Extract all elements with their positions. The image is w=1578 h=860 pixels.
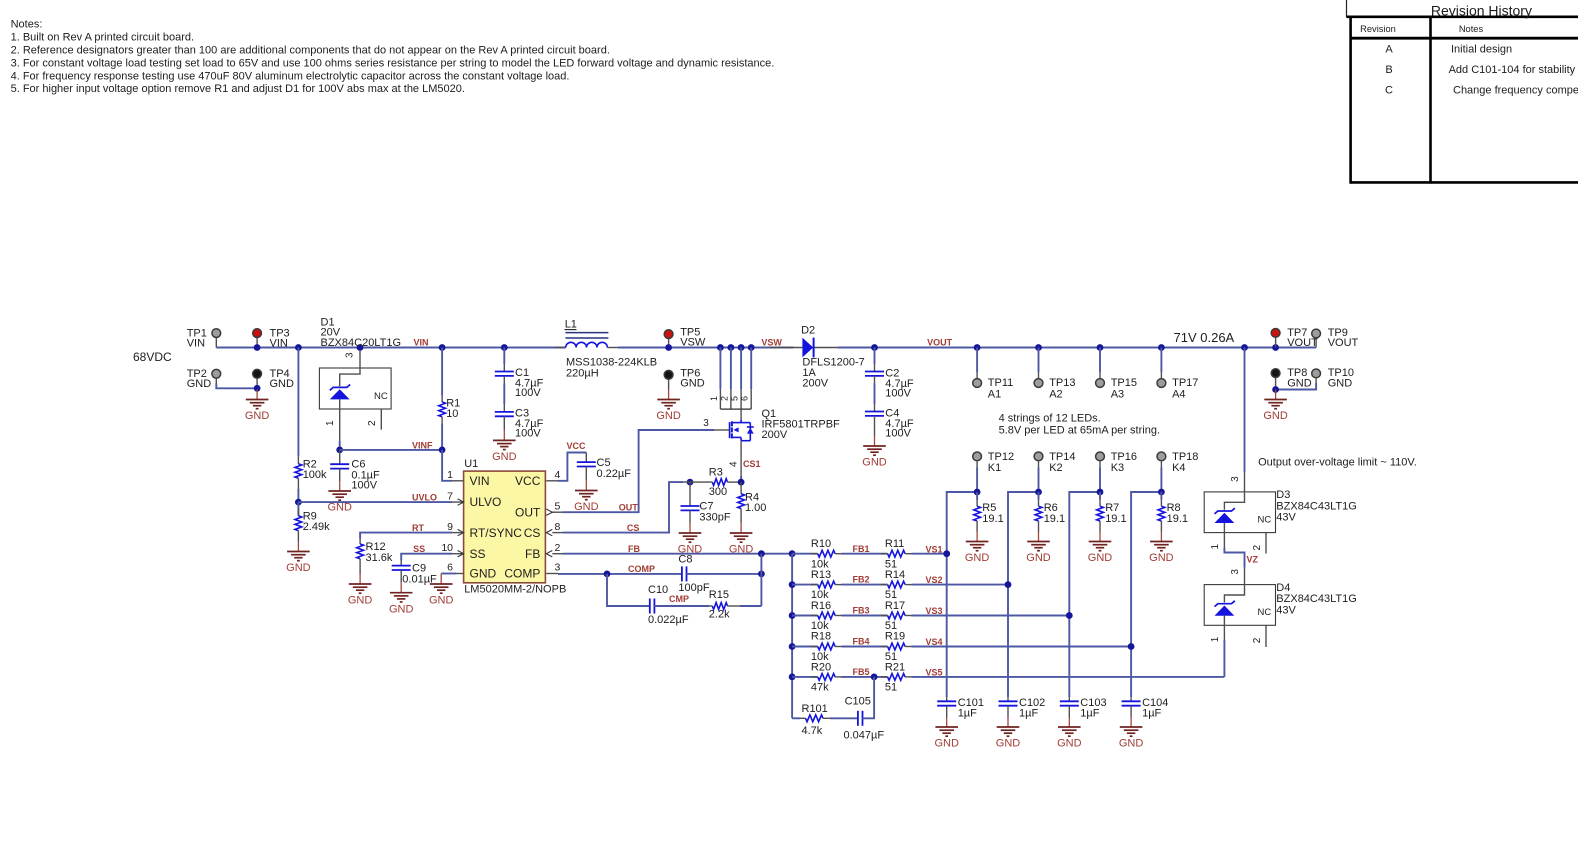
svg-text:10: 10 — [441, 542, 453, 554]
wire D1 pin 1 to VINF node — [339, 441, 341, 450]
wire FB2 segment — [842, 584, 888, 586]
wire R1 branch upper — [441, 348, 443, 396]
wire R2 to UVLO node — [297, 489, 299, 502]
svg-text:2.49k: 2.49k — [303, 521, 330, 533]
ground symbol below R8 — [1160, 532, 1162, 542]
svg-text:RT: RT — [412, 523, 424, 533]
svg-text:100V: 100V — [351, 480, 377, 492]
svg-text:GND: GND — [1057, 738, 1082, 750]
svg-text:2: 2 — [367, 420, 378, 426]
svg-text:4. For frequency response test: 4. For frequency response testing use 47… — [11, 70, 570, 82]
wire R101 to C105 — [830, 717, 858, 719]
svg-text:1: 1 — [325, 420, 336, 426]
test point TP18 K4 — [1157, 451, 1198, 492]
wire FB1 segment — [842, 553, 888, 555]
svg-text:43V: 43V — [1276, 604, 1296, 616]
wire R101/C105 branch — [792, 717, 800, 719]
wire C2 branch upper — [874, 348, 876, 365]
svg-text:BZX84C43LT1G: BZX84C43LT1G — [1276, 593, 1357, 605]
svg-text:A2: A2 — [1049, 389, 1062, 401]
svg-text:51: 51 — [885, 682, 897, 694]
wire between C2 and C4 — [874, 384, 876, 405]
svg-text:VIN: VIN — [270, 337, 288, 349]
svg-text:VOUT: VOUT — [927, 338, 953, 348]
capacitor C4 4.7uF 100V — [865, 404, 914, 439]
ground symbol below C3 — [503, 430, 505, 440]
zener diode D1 BZX84C20LT1G — [319, 317, 401, 441]
svg-text:Add C101-104 for stability: Add C101-104 for stability — [1449, 64, 1576, 76]
wire COMP branch down to C10 — [607, 574, 650, 606]
resistor R18 10k — [792, 631, 841, 663]
test point TP15 A3 — [1096, 348, 1137, 401]
svg-text:100V: 100V — [885, 387, 911, 399]
capacitor C103 1uF — [1060, 697, 1107, 720]
svg-text:TP11: TP11 — [988, 377, 1013, 389]
junction VS3 column to ladder row — [1066, 612, 1073, 619]
ground symbol below R6 — [1038, 532, 1040, 542]
svg-text:68VDC: 68VDC — [133, 350, 172, 364]
capacitor C105 0.047uF — [844, 696, 885, 742]
svg-text:4 strings of 12 LEDs.: 4 strings of 12 LEDs. — [999, 412, 1101, 424]
junction K3 node — [1097, 489, 1104, 496]
resistor R15 2.2k — [709, 589, 740, 620]
svg-text:2: 2 — [1252, 637, 1263, 643]
wire VOUT rail from D2 to TP9 corner — [838, 347, 1316, 349]
svg-text:R19: R19 — [885, 631, 905, 643]
svg-text:0.047µF: 0.047µF — [844, 730, 885, 742]
wire VSW rail from L1 to D2 — [618, 347, 794, 349]
svg-text:71V 0.26A: 71V 0.26A — [1174, 330, 1235, 345]
wire Q1 drain pin 6 — [750, 348, 752, 390]
junction K4 node — [1158, 489, 1165, 496]
test point TP6 GND — [664, 367, 705, 389]
test point TP8 GND — [1271, 367, 1312, 389]
svg-text:GND: GND — [348, 595, 373, 607]
svg-text:4.7k: 4.7k — [802, 725, 823, 737]
junction VIN rail to R1 branch — [439, 344, 446, 351]
wire VS4 segment — [912, 646, 1132, 648]
resistor R2 100k — [295, 456, 327, 489]
svg-text:CS: CS — [627, 523, 640, 533]
svg-text:CMP: CMP — [669, 594, 689, 604]
svg-text:3: 3 — [1230, 569, 1241, 575]
ground symbol below C4 — [874, 436, 876, 446]
svg-text:ULVO: ULVO — [470, 495, 502, 509]
svg-text:Output over-voltage limit ~ 11: Output over-voltage limit ~ 110V. — [1258, 457, 1417, 469]
junction TP3 on VIN rail — [254, 344, 261, 351]
junction FB5 node at C105 branch — [871, 674, 878, 681]
pin 2 stub of D4 (NC) — [1265, 625, 1267, 647]
junction FB node at ladder bus — [789, 550, 796, 557]
capacitor C8 100pF — [678, 553, 761, 593]
junction ladder bus row 3 — [789, 612, 796, 619]
svg-text:R101: R101 — [802, 703, 828, 715]
svg-text:3. For constant voltage load t: 3. For constant voltage load testing set… — [11, 57, 775, 69]
svg-text:R13: R13 — [811, 569, 831, 581]
ground symbol below R5 — [976, 532, 978, 542]
junction TP5 on VSW rail — [665, 344, 672, 351]
wire between C1 and C3 — [503, 384, 505, 405]
svg-text:0.022µF: 0.022µF — [648, 614, 689, 626]
test point TP13 A2 — [1034, 348, 1075, 401]
svg-text:D4: D4 — [1276, 582, 1290, 594]
wire FB4 segment — [842, 646, 888, 648]
svg-text:5.8V per LED at 65mA per strin: 5.8V per LED at 65mA per string. — [999, 425, 1160, 437]
svg-text:FB5: FB5 — [853, 667, 870, 677]
svg-text:Revision: Revision — [1360, 24, 1396, 34]
svg-text:1µF: 1µF — [1019, 708, 1038, 720]
svg-text:CS: CS — [524, 526, 541, 540]
wire Q1 drain bracket — [720, 408, 751, 410]
svg-text:6: 6 — [447, 562, 453, 574]
svg-text:VSW: VSW — [761, 338, 782, 348]
junction TP4 ground node — [254, 385, 261, 392]
svg-text:3: 3 — [1230, 476, 1241, 482]
capacitor C101 1uF — [937, 697, 984, 720]
svg-text:TP16: TP16 — [1111, 451, 1137, 463]
junction TP8 ground node — [1272, 386, 1279, 393]
resistor R19 51 — [881, 631, 912, 663]
wire ladder left bus — [791, 554, 793, 719]
svg-text:GND: GND — [492, 451, 517, 463]
svg-text:R3: R3 — [709, 467, 723, 479]
svg-text:VZ: VZ — [1247, 555, 1259, 565]
svg-text:100V: 100V — [515, 387, 541, 399]
svg-text:5: 5 — [730, 396, 740, 401]
ground symbol below C101 — [946, 717, 948, 727]
pin 2 stub of D3 (NC) — [1265, 533, 1267, 554]
junction VSW rail to Q1 drain pin 5 — [738, 344, 745, 351]
svg-text:A1: A1 — [988, 389, 1001, 401]
inductor L1 MSS1038-224KLB 220uH — [555, 319, 657, 380]
wire Q1 source to CS1 node — [740, 441, 742, 476]
resistor R11 51 — [881, 538, 912, 570]
svg-text:VIN: VIN — [470, 474, 490, 488]
resistor R20 47k — [792, 661, 841, 693]
capacitor C102 1uF — [999, 697, 1046, 720]
pin 4 VCC of U1 — [546, 480, 558, 482]
svg-text:R11: R11 — [885, 538, 904, 550]
wire Q1 drain pin 5 — [740, 348, 742, 390]
svg-text:1µF: 1µF — [1142, 708, 1161, 720]
svg-text:R16: R16 — [811, 600, 831, 612]
svg-text:220µH: 220µH — [566, 368, 599, 380]
pin 1 VIN of U1 — [452, 480, 464, 482]
svg-text:C105: C105 — [845, 696, 871, 708]
svg-text:1: 1 — [447, 469, 453, 481]
resistor R8 19.1 — [1158, 492, 1188, 532]
svg-text:A4: A4 — [1172, 389, 1185, 401]
wire Q1 gate lead — [714, 429, 730, 431]
svg-text:Change frequency compensation: Change frequency compensation — [1453, 85, 1578, 97]
svg-text:TP18: TP18 — [1172, 451, 1198, 463]
wire VS1 column — [947, 492, 977, 697]
svg-text:NC: NC — [1258, 514, 1272, 525]
svg-text:VOUT: VOUT — [1328, 337, 1359, 349]
svg-text:2: 2 — [719, 396, 729, 401]
svg-text:R20: R20 — [811, 661, 831, 673]
svg-text:100V: 100V — [515, 427, 541, 439]
test point TP2 GND — [187, 368, 221, 390]
svg-text:SS: SS — [470, 547, 486, 561]
svg-text:5. For higher input voltage op: 5. For higher input voltage option remov… — [11, 83, 465, 95]
capacitor C104 1uF — [1122, 697, 1169, 720]
junction VOUT rail to TP13 — [1035, 344, 1042, 351]
svg-text:L1: L1 — [565, 319, 577, 331]
svg-text:0.22µF: 0.22µF — [597, 468, 632, 480]
svg-text:B: B — [1385, 64, 1392, 76]
svg-text:100V: 100V — [885, 427, 911, 439]
test point TP3 VIN — [253, 327, 290, 349]
wire FB3 segment — [842, 615, 888, 617]
junction ladder bus row 2 — [789, 581, 796, 588]
svg-text:NC: NC — [1258, 607, 1272, 618]
junction VOUT rail to TP15 — [1097, 344, 1104, 351]
svg-text:2. Reference designators great: 2. Reference designators greater than 10… — [11, 44, 610, 56]
junction VS1 column to ladder row — [943, 550, 950, 557]
pin 2 stub of D1 (NC) — [380, 409, 382, 430]
wire R2 branch upper — [297, 348, 299, 457]
transistor Q1 IRF5801TRPBF 200V — [730, 408, 840, 441]
svg-text:C9: C9 — [412, 562, 426, 574]
svg-text:COMP: COMP — [628, 564, 655, 574]
junction VSW rail to Q1 drain pin 6 — [748, 344, 755, 351]
svg-text:9: 9 — [447, 521, 453, 533]
wire VINF to R1 bottom — [340, 449, 442, 451]
junction VOUT rail to D3 branch — [1241, 344, 1248, 351]
svg-text:VSW: VSW — [680, 337, 706, 349]
resistor R101 4.7k — [800, 703, 830, 737]
resistor R14 51 — [881, 569, 912, 601]
svg-text:VS2: VS2 — [926, 575, 943, 585]
revision history table — [1347, 0, 1578, 184]
wire TP2 to TP4 ground node — [216, 384, 257, 389]
junction VIN rail to C1 branch — [501, 344, 508, 351]
svg-text:47k: 47k — [811, 682, 829, 694]
svg-text:19.1: 19.1 — [982, 513, 1003, 525]
svg-text:C8: C8 — [678, 553, 692, 565]
junction UVLO node — [295, 499, 302, 506]
ground symbol below R12 — [359, 574, 361, 584]
wire U1 GND pin to ground — [441, 573, 456, 575]
svg-text:GND: GND — [1328, 377, 1353, 389]
svg-text:VCC: VCC — [567, 441, 587, 451]
svg-text:GND: GND — [934, 738, 959, 750]
op-amp U1 LM5020MM-2/NOPB controller — [464, 458, 567, 595]
svg-text:TP13: TP13 — [1049, 377, 1075, 389]
svg-text:4: 4 — [555, 469, 561, 481]
svg-text:VIN: VIN — [414, 338, 429, 348]
junction VS2 column to ladder row — [1005, 581, 1012, 588]
svg-text:OUT: OUT — [515, 505, 541, 519]
svg-text:FB2: FB2 — [853, 575, 870, 585]
junction VIN rail to D1 pin 3 — [357, 344, 364, 351]
svg-text:200V: 200V — [762, 429, 788, 441]
svg-text:SS: SS — [413, 544, 425, 554]
svg-text:R14: R14 — [885, 569, 905, 581]
svg-text:5: 5 — [555, 500, 561, 512]
svg-text:6: 6 — [740, 396, 750, 401]
svg-text:D3: D3 — [1276, 489, 1290, 501]
svg-text:200V: 200V — [802, 377, 828, 389]
wire VS3 segment — [912, 615, 1070, 617]
svg-text:VS4: VS4 — [926, 637, 943, 647]
wire VS4 column — [1131, 492, 1161, 697]
resistor R21 51 — [881, 661, 912, 693]
svg-text:K1: K1 — [988, 462, 1001, 474]
svg-text:GND: GND — [470, 567, 497, 581]
wire FB net from pin 2 to ladder bus — [563, 553, 792, 555]
ground symbol below U1 pin 6 — [440, 574, 442, 585]
svg-text:NC: NC — [374, 391, 388, 402]
svg-text:GND: GND — [680, 378, 705, 390]
wire TP10 to TP8 ground node — [1276, 383, 1317, 390]
svg-text:TP14: TP14 — [1049, 451, 1075, 463]
svg-text:GND: GND — [1149, 552, 1174, 564]
wire D3 branch down — [1244, 348, 1246, 473]
pin 7 ULVO of U1 — [452, 501, 464, 503]
svg-text:GND: GND — [1119, 738, 1144, 750]
pin 8 CS of U1 — [552, 532, 563, 534]
svg-text:3: 3 — [555, 562, 561, 574]
svg-text:R18: R18 — [811, 631, 831, 643]
junction ladder bus row 5 — [789, 674, 796, 681]
resistor R3 300 — [683, 467, 741, 499]
svg-text:BZX84C20LT1G: BZX84C20LT1G — [321, 337, 402, 349]
svg-text:GND: GND — [187, 378, 212, 390]
wire Q1 drain pin 2 — [730, 348, 732, 390]
svg-text:TP12: TP12 — [988, 451, 1014, 463]
svg-text:GND: GND — [270, 378, 295, 390]
svg-text:19.1: 19.1 — [1167, 513, 1188, 525]
pin 5 OUT of U1 — [552, 511, 563, 513]
junction K1 node — [974, 489, 981, 496]
svg-text:GND: GND — [389, 603, 414, 615]
svg-text:R21: R21 — [885, 661, 905, 673]
junction K2 node — [1035, 489, 1042, 496]
svg-text:1.00: 1.00 — [745, 502, 766, 514]
svg-text:GND: GND — [245, 410, 270, 422]
svg-text:RT/SYNC: RT/SYNC — [470, 526, 523, 540]
svg-text:7: 7 — [447, 490, 453, 502]
ground symbol below C102 — [1007, 717, 1009, 727]
wire R15 to FB column — [740, 605, 761, 607]
wire OUT net from pin 5 to Q1 gate — [563, 430, 714, 512]
svg-text:3: 3 — [703, 418, 709, 429]
wire VIN rail from TP1 to L1 — [216, 347, 565, 349]
svg-text:U1: U1 — [464, 458, 478, 470]
svg-text:Notes:: Notes: — [11, 19, 43, 31]
svg-text:19.1: 19.1 — [1105, 513, 1126, 525]
junction VOUT rail to TP11 — [974, 344, 981, 351]
wire VZ node between D3 and D4 — [1224, 548, 1244, 568]
svg-text:8: 8 — [555, 521, 561, 533]
svg-text:Revision History: Revision History — [1431, 2, 1532, 18]
svg-text:R17: R17 — [885, 600, 905, 612]
junction VOUT rail at TP7 — [1272, 344, 1279, 351]
wire VINF junction down to U1 pin 1 — [442, 450, 452, 481]
wire D4 pin 1 down to VS5 row — [1223, 640, 1225, 677]
svg-text:1: 1 — [1210, 636, 1221, 642]
test point TP7 VOUT — [1271, 327, 1318, 349]
junction VIN rail to R2 branch — [295, 344, 302, 351]
svg-text:LM5020MM-2/NOPB: LM5020MM-2/NOPB — [464, 583, 566, 595]
capacitor C3 4.7uF 100V — [495, 404, 544, 439]
wire R1 bottom to VINF junction — [441, 424, 443, 450]
svg-text:1: 1 — [709, 396, 719, 401]
junction CS1 node at Q1 source — [738, 479, 745, 486]
wire VS1 segment — [912, 553, 947, 555]
wire COMP net from pin 3 — [558, 573, 682, 575]
svg-text:VINF: VINF — [412, 440, 433, 450]
test point TP17 A4 — [1157, 348, 1198, 401]
svg-text:FB3: FB3 — [853, 606, 870, 616]
ground symbol below C5 — [585, 481, 587, 491]
svg-text:BZX84C43LT1G: BZX84C43LT1G — [1276, 500, 1357, 512]
svg-text:R15: R15 — [709, 589, 729, 601]
resistor R13 10k — [792, 569, 841, 601]
junction VSW rail to Q1 drain pin 1 — [717, 344, 724, 351]
junction CS node at C7 — [687, 479, 694, 486]
svg-text:3: 3 — [345, 352, 356, 358]
svg-text:2.2k: 2.2k — [709, 608, 730, 620]
svg-text:GND: GND — [1287, 377, 1312, 389]
test point TP10 GND — [1312, 367, 1354, 389]
svg-text:330pF: 330pF — [699, 511, 730, 523]
ground symbol below C103 — [1068, 717, 1070, 727]
wire Q1 drain pin 1 — [719, 348, 721, 390]
wire SS net — [401, 554, 452, 560]
svg-text:R10: R10 — [811, 538, 831, 550]
pin 9 RT/SYNC of U1 — [452, 532, 464, 534]
svg-text:100k: 100k — [303, 469, 327, 481]
resistor R17 51 — [881, 600, 912, 632]
resistor R9 2.49k — [295, 502, 330, 541]
notes text block — [11, 19, 775, 96]
resistor R4 1.00 — [738, 482, 767, 523]
pin 2 FB of U1 — [552, 553, 563, 555]
svg-text:19.1: 19.1 — [1044, 513, 1065, 525]
svg-text:C: C — [1385, 85, 1393, 97]
ground symbol below C104 — [1130, 717, 1132, 727]
svg-text:MSS1038-224KLB: MSS1038-224KLB — [566, 356, 657, 368]
capacitor C10 0.022uF — [648, 584, 689, 626]
svg-text:1. Built on Rev A printed circ: 1. Built on Rev A printed circuit board. — [11, 32, 194, 44]
svg-text:1: 1 — [1210, 544, 1221, 550]
svg-text:GND: GND — [965, 552, 990, 564]
junction VOUT rail to C2 branch — [871, 344, 878, 351]
svg-text:GND: GND — [862, 457, 887, 469]
svg-text:2: 2 — [1252, 545, 1263, 551]
wire VS2 column — [1008, 492, 1039, 697]
ground symbol below C6 — [339, 481, 341, 491]
test point TP11 A1 — [973, 348, 1014, 401]
wire VS3 column — [1069, 492, 1100, 697]
wire UVLO net — [298, 501, 452, 503]
pin 10 SS of U1 — [452, 553, 464, 555]
svg-text:K4: K4 — [1172, 462, 1185, 474]
wire C105 up to FB5 junction — [863, 677, 875, 718]
junction VS4 column to ladder row — [1128, 643, 1135, 650]
capacitor C1 4.7uF 100V — [495, 364, 544, 399]
wire C8 to FB column — [760, 554, 762, 606]
ground symbol below C7 — [689, 523, 691, 533]
capacitor C5 0.22uF — [577, 453, 631, 481]
wire CS net from pin 8 to R3 — [563, 482, 683, 532]
ground symbol below C9 — [400, 583, 402, 593]
svg-text:GND: GND — [327, 502, 352, 514]
svg-text:CS1: CS1 — [743, 459, 761, 469]
